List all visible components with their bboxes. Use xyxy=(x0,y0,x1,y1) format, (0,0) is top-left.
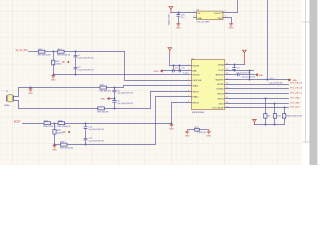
resistor R18 xyxy=(58,120,72,128)
power port VDD33 (left of IC) xyxy=(168,48,172,53)
wire oscillator CLKOUT up to sheet top xyxy=(227,1,238,13)
capacitor C15 xyxy=(179,66,188,75)
svg-text:VDDPST: VDDPST xyxy=(215,80,224,82)
svg-text:TOUT: TOUT xyxy=(218,70,224,72)
wire R18 east to GPIO0 junction xyxy=(65,123,172,125)
svg-text:R10: R10 xyxy=(277,116,280,118)
wire GPIO5 junction down to R9 xyxy=(265,99,267,114)
svg-text:RES (330R) (F): RES (330R) (F) xyxy=(57,55,71,57)
svg-text:CLKOUT: CLKOUT xyxy=(214,13,223,15)
wire SDIO junction down to R10 xyxy=(274,104,276,114)
svg-text:BT1_GB4: BT1_GB4 xyxy=(290,97,300,99)
wire port to cap junction xyxy=(111,98,116,100)
wire R16 to ground rail xyxy=(53,65,55,76)
wire IC U0TXD row xyxy=(230,83,289,85)
resistor R14 xyxy=(57,49,71,57)
svg-text:RES12K: RES12K xyxy=(216,75,224,77)
wire crystal pin2 to XTAL bottom line xyxy=(14,101,98,109)
svg-text:Cap (xx) (Pb 4V): Cap (xx) (Pb 4V) xyxy=(269,83,283,85)
svg-text:0.1u: 0.1u xyxy=(181,17,185,19)
svg-text:BOOT: BOOT xyxy=(14,122,21,124)
wire R17 to R18 xyxy=(51,123,59,125)
svg-text:RES (330R) (F): RES (330R) (F) xyxy=(60,148,74,150)
power port VDD33 (resistor bank) xyxy=(253,120,257,125)
wire lower rail through R20 xyxy=(55,144,61,146)
svg-text:GPIO0: GPIO0 xyxy=(192,103,199,105)
wire IC TOUT row xyxy=(230,70,254,75)
svg-text:RES (10K0) (F) DNP: RES (10K0) (F) DNP xyxy=(286,116,303,118)
svg-text:GND: GND xyxy=(258,75,263,77)
svg-text:RES (0R) (F): RES (0R) (F) xyxy=(97,111,108,113)
net label BT1_UB_U0TX xyxy=(290,83,305,85)
wire R14 east, to vertical drop at x124 xyxy=(65,51,125,53)
capacitor C13 xyxy=(173,66,179,73)
resistor R10 (vertical) xyxy=(273,114,280,119)
no-fit marker NF (R16) xyxy=(62,61,69,64)
long vertical wire net from sheet top to C14 row xyxy=(267,1,269,80)
net label BT1_UB_CLK xyxy=(290,93,304,95)
svg-text:GPIO4: GPIO4 xyxy=(217,94,224,96)
ground under C16 xyxy=(176,24,181,30)
wire R13 to IC XTAL2 pin xyxy=(105,92,187,109)
svg-text:SDIO: SDIO xyxy=(219,104,224,106)
resistor R12 (XTAL top) xyxy=(100,85,111,93)
svg-text:VDD33_RTC: VDD33_RTC xyxy=(168,13,170,26)
svg-text:GND: GND xyxy=(206,135,211,137)
power port VDD33 (right of IC) xyxy=(242,50,246,65)
port GND (C14 rail right) xyxy=(289,79,298,82)
ground at GPIO0 junction xyxy=(169,123,174,130)
svg-text:GPIO2: GPIO2 xyxy=(192,92,199,94)
wire IC GPIO5 row xyxy=(230,98,289,100)
svg-text:CHIP_EN: CHIP_EN xyxy=(192,80,201,82)
svg-text:GPIO15: GPIO15 xyxy=(192,75,200,77)
svg-text:Cap (10u) (Pb 4V): Cap (10u) (Pb 4V) xyxy=(236,72,251,74)
svg-text:C15: C15 xyxy=(181,68,184,70)
svg-text:GND: GND xyxy=(28,93,33,95)
svg-text:R9: R9 xyxy=(268,116,270,118)
ground (top-left circuit) xyxy=(51,75,56,82)
wire lower rail to IC pin GPIO row xyxy=(54,74,187,76)
port GND (left of IC) xyxy=(154,70,163,74)
net label BT1_SD2 xyxy=(290,107,300,109)
svg-text:(10K0): (10K0) xyxy=(57,133,63,135)
resistor R15 xyxy=(38,49,51,57)
wire IC bottom row xyxy=(230,107,289,109)
svg-text:GND: GND xyxy=(51,80,56,82)
wire IC SDIO row xyxy=(230,103,289,105)
wire IC U0RXD row xyxy=(230,88,289,90)
ground (left of R21) xyxy=(185,130,190,138)
svg-text:VL_IN_3V3: VL_IN_3V3 xyxy=(16,50,28,52)
IC U4 designator xyxy=(192,58,196,60)
svg-text:GND: GND xyxy=(185,135,190,137)
wire crystal pin1 to XTAL top line xyxy=(14,88,31,97)
svg-text:RES (10K0) (F): RES (10K0) (F) xyxy=(38,55,51,57)
wire R20 to IC GPIO2 pin xyxy=(68,97,187,146)
oscillator U5 part value xyxy=(197,22,211,24)
wire R15 to R14 xyxy=(45,51,58,53)
svg-text:GND: GND xyxy=(176,28,181,30)
scrollbar track xyxy=(310,0,318,165)
ground (right of R21) xyxy=(206,130,211,138)
resistor R20 xyxy=(60,142,74,150)
wire IC VDDPST row (C14 rail) xyxy=(230,78,289,80)
wire vertical drop to IC pin CHIP_EN row xyxy=(125,52,187,81)
wire R21 left to ground xyxy=(188,129,195,131)
net label BT1_GB4 xyxy=(290,97,300,99)
svg-text:RES (330R) (F): RES (330R) (F) xyxy=(58,126,72,128)
IC U4 left pin stubs xyxy=(187,64,192,103)
crystal X1 xyxy=(4,91,13,107)
wire XTAL top line to R12 xyxy=(31,87,101,89)
wire net VL_IN_3V3 xyxy=(29,51,39,53)
resistor R11 (vertical) xyxy=(283,114,304,119)
svg-text:U0RXD: U0RXD xyxy=(217,89,224,91)
wire R19 to ground rail xyxy=(54,135,56,146)
wire bottom row junction down to R11 xyxy=(284,108,286,114)
wire port to IC pin row 2 xyxy=(162,70,187,72)
wire net BOOT xyxy=(23,123,45,125)
wire oscillator VDD to ground xyxy=(227,18,232,24)
capacitor C7 xyxy=(74,52,94,68)
capacitor C16 xyxy=(176,12,185,24)
wire junction up to IC GPIO0 pin xyxy=(171,103,187,125)
wire R12 to IC XTAL pin with jog xyxy=(107,86,187,89)
port GND (crystal mid rail) xyxy=(100,97,109,101)
svg-text:OSC_32.768K: OSC_32.768K xyxy=(197,22,211,24)
svg-text:GND: GND xyxy=(52,150,57,152)
IC U4 part value xyxy=(192,112,205,114)
wire IC RES12K row to port xyxy=(230,73,256,78)
svg-text:Cap (12pF) (Pb 4V): Cap (12pF) (Pb 4V) xyxy=(117,103,133,105)
svg-text:U0TXD: U0TXD xyxy=(217,84,224,86)
wire vertical from TOUT row down to C14 row xyxy=(249,71,251,81)
ground hang on XTAL top line xyxy=(28,87,33,95)
net label BT1_GB5 xyxy=(290,102,300,104)
resistor R17 xyxy=(43,120,56,128)
net label VL_IN_3V3 xyxy=(16,50,28,52)
svg-text:BT1_GB5: BT1_GB5 xyxy=(290,102,300,104)
svg-text:ESP8285N08: ESP8285N08 xyxy=(192,112,205,114)
svg-text:26MHz: 26MHz xyxy=(4,105,10,107)
capacitor C12 xyxy=(84,138,105,145)
wire VDD33 to oscillator pin 1 xyxy=(171,12,194,14)
svg-text:BT1_SD2: BT1_SD2 xyxy=(290,107,300,109)
oscillator U5 designator xyxy=(197,9,200,11)
svg-text:BT1_UB_CLK: BT1_UB_CLK xyxy=(290,93,304,95)
svg-text:Cap (10nF) (Pb 4V): Cap (10nF) (Pb 4V) xyxy=(78,58,94,60)
wire VDD33 down to IC VDD pin xyxy=(170,54,187,67)
wire IC VDDA row xyxy=(230,64,245,66)
svg-text:OTO_WDDF: OTO_WDDF xyxy=(212,108,224,110)
capacitor C11 xyxy=(84,124,105,139)
wire IC GPIO4 row xyxy=(230,93,289,95)
svg-text:RES (0R) (F): RES (0R) (F) xyxy=(100,91,111,93)
capacitor C6 (XTAL load bottom) xyxy=(112,99,133,110)
svg-text:Cap (10nF) (Pb 4V): Cap (10nF) (Pb 4V) xyxy=(88,141,104,143)
svg-text:VDD: VDD xyxy=(218,18,223,20)
resistor R13 (XTAL bottom) xyxy=(97,107,108,113)
svg-text:C5: C5 xyxy=(117,101,119,103)
svg-text:GPIO5: GPIO5 xyxy=(217,99,224,101)
svg-text:C8: C8 xyxy=(117,90,119,92)
capacitor C9 xyxy=(74,67,94,75)
op-amp/IC U4 body xyxy=(191,60,225,110)
svg-text:C10: C10 xyxy=(236,68,239,70)
svg-text:VDD33: VDD33 xyxy=(192,66,199,68)
resistor R9 (vertical) xyxy=(264,114,270,119)
ground (bottom-left circuit) xyxy=(52,145,57,152)
IC U4 right pin stubs xyxy=(225,63,230,108)
no-fit marker NF (R19) xyxy=(63,131,70,135)
panel gutter (white) xyxy=(302,0,320,165)
svg-text:GND: GND xyxy=(169,128,174,130)
capacitor C10 (row1 to row2) xyxy=(232,65,239,71)
svg-text:Cap (10nF) (Pb 4V): Cap (10nF) (Pb 4V) xyxy=(78,70,94,72)
svg-text:R (0R) (F): R (0R) (F) xyxy=(197,132,206,134)
net label BOOT xyxy=(14,122,21,124)
power port VDD33 (top left of oscillator) xyxy=(168,7,172,26)
ground under oscillator pin 3 xyxy=(229,24,234,30)
port GND (row 3 right) xyxy=(255,73,264,76)
wire R21 right to ground xyxy=(200,129,209,131)
capacitor C8 (XTAL load top) xyxy=(112,88,133,99)
svg-text:GND: GND xyxy=(292,80,297,82)
resistor R19 (vertical) xyxy=(53,124,63,135)
svg-text:GND: GND xyxy=(154,71,159,73)
svg-text:GND: GND xyxy=(100,99,105,101)
svg-text:GND: GND xyxy=(198,18,203,20)
net label BT1_UB_U0RX xyxy=(290,88,305,90)
wire resistor bank commoning rail xyxy=(255,119,285,126)
svg-text:GND: GND xyxy=(229,28,234,30)
oscillator U5 pin stubs xyxy=(194,10,227,17)
resistor R16 (vertical) xyxy=(52,52,62,66)
svg-text:Cap (nn) (Pb 4V): Cap (nn) (Pb 4V) xyxy=(242,77,256,79)
svg-text:(10K0): (10K0) xyxy=(56,63,62,65)
svg-text:Cap (10nF) (Pb 4V): Cap (10nF) (Pb 4V) xyxy=(88,129,104,131)
svg-text:Cap (12pF) (Pb 4V): Cap (12pF) (Pb 4V) xyxy=(117,93,133,95)
resistor R21 (0R ground link) xyxy=(195,127,206,134)
svg-text:C13: C13 xyxy=(175,68,178,70)
oscillator U5 body xyxy=(196,11,223,20)
